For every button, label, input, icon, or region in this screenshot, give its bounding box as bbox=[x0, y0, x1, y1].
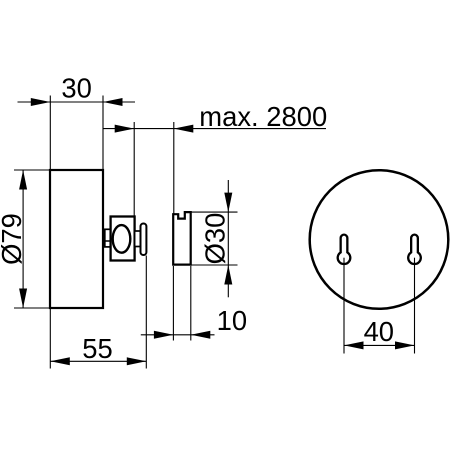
dim D30 arrow top bbox=[224, 193, 232, 213]
keyhole centerline right bbox=[414, 258, 416, 354]
dim 55 extension line right bbox=[145, 256, 147, 369]
svg-text:55: 55 bbox=[82, 333, 112, 364]
knob body bbox=[111, 217, 135, 261]
dim max 2800 arrow left bbox=[115, 125, 135, 133]
svg-text:max. 2800: max. 2800 bbox=[199, 101, 327, 132]
dim D30 line bbox=[227, 180, 229, 297]
dim 30 arrow right bbox=[103, 98, 123, 106]
keyhole right bbox=[408, 235, 421, 264]
dim 10 arrow left bbox=[154, 331, 174, 339]
dim max 2800 extension line right bbox=[173, 122, 175, 214]
dim max 2800 extension line left bbox=[133, 122, 135, 216]
dim 30 extension line left bbox=[49, 96, 51, 171]
dim 40 line bbox=[344, 344, 415, 346]
dim 55 arrow right bbox=[127, 357, 147, 365]
dim 30 arrow left bbox=[31, 98, 51, 106]
roundel front view circle bbox=[310, 170, 449, 309]
dim D79 extension line top bbox=[14, 169, 49, 171]
knob mount tab bbox=[105, 229, 111, 247]
svg-text:Ø30: Ø30 bbox=[199, 213, 230, 265]
svg-text:30: 30 bbox=[61, 73, 91, 104]
dim max 2800 arrow right bbox=[174, 125, 194, 133]
wall plate side view bbox=[50, 170, 103, 308]
dim 10 extension line left bbox=[172, 266, 174, 341]
dim D79 arrow bottom bbox=[19, 289, 27, 309]
knob right tab bbox=[135, 231, 141, 247]
dim 30 line bbox=[18, 101, 136, 103]
dim 55 extension line left bbox=[49, 308, 51, 369]
dim 10 line bbox=[141, 334, 215, 336]
svg-text:40: 40 bbox=[364, 316, 394, 347]
dim max 2800 line bbox=[103, 128, 326, 130]
svg-text:Ø79: Ø79 bbox=[0, 213, 27, 265]
dim 10 extension line right bbox=[190, 266, 192, 341]
dim 40 arrow left bbox=[344, 341, 364, 349]
keyhole left bbox=[338, 235, 351, 264]
svg-text:10: 10 bbox=[217, 305, 247, 336]
dim D30 extension line top bbox=[192, 211, 238, 213]
knob end pill bbox=[141, 224, 147, 256]
dim 55 arrow left bbox=[50, 357, 70, 365]
dim D30 extension line bottom bbox=[192, 264, 238, 266]
dim 55 line bbox=[50, 360, 146, 362]
keyhole centerline left bbox=[343, 258, 345, 354]
dim 30 extension line right bbox=[102, 96, 104, 171]
dim D79 extension line bottom bbox=[14, 307, 49, 309]
dim 40 arrow right bbox=[395, 341, 415, 349]
dim D79 line bbox=[22, 170, 24, 308]
knob ellipse bbox=[113, 225, 131, 253]
dim D79 arrow top bbox=[19, 170, 27, 190]
dim 10 arrow right bbox=[191, 331, 211, 339]
hook part side view bbox=[173, 212, 191, 265]
dim D30 arrow bottom bbox=[224, 265, 232, 285]
